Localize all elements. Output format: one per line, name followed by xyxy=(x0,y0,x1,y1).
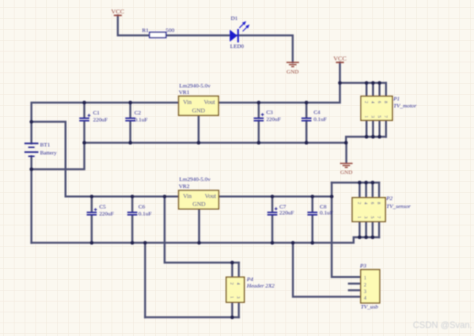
svg-text:GND: GND xyxy=(340,170,352,176)
svg-text:220uF: 220uF xyxy=(266,117,281,123)
svg-text:Vout: Vout xyxy=(204,100,216,106)
svg-text:Header 2X2: Header 2X2 xyxy=(246,284,275,290)
svg-text:R1: R1 xyxy=(142,28,149,34)
svg-text:P4: P4 xyxy=(246,277,253,283)
svg-text:TV_sensor: TV_sensor xyxy=(386,204,411,210)
svg-text:Vout: Vout xyxy=(205,194,217,200)
svg-text:Lm2940-5.0v: Lm2940-5.0v xyxy=(179,177,210,183)
svg-text:C6: C6 xyxy=(138,205,145,211)
svg-text:C8: C8 xyxy=(320,204,327,210)
svg-text:CSDN @Svan.: CSDN @Svan. xyxy=(413,320,472,330)
svg-text:P1: P1 xyxy=(392,97,399,103)
svg-text:Vin: Vin xyxy=(183,100,192,106)
svg-text:D1: D1 xyxy=(231,16,238,22)
svg-text:VCC: VCC xyxy=(111,9,124,16)
svg-text:VCC: VCC xyxy=(333,56,346,63)
svg-text:TV_motor: TV_motor xyxy=(393,104,417,110)
svg-text:Lm2940-5.0v: Lm2940-5.0v xyxy=(179,83,210,89)
svg-text:500: 500 xyxy=(166,28,175,34)
svg-text:GND: GND xyxy=(287,70,299,76)
svg-text:P3: P3 xyxy=(359,264,366,270)
svg-text:C3: C3 xyxy=(266,110,273,116)
svg-text:C1: C1 xyxy=(93,110,100,116)
svg-text:GND: GND xyxy=(192,108,206,114)
svg-text:TV_usb: TV_usb xyxy=(361,305,379,311)
svg-text:VR1: VR1 xyxy=(179,90,190,96)
svg-text:VR2: VR2 xyxy=(179,184,190,190)
svg-text:C7: C7 xyxy=(279,204,286,210)
svg-text:LED0: LED0 xyxy=(230,44,244,50)
svg-text:0.1uF: 0.1uF xyxy=(138,212,151,218)
svg-text:GND: GND xyxy=(193,202,207,208)
svg-text:C4: C4 xyxy=(314,110,321,116)
svg-text:220uF: 220uF xyxy=(93,117,108,123)
svg-text:P2: P2 xyxy=(385,196,392,202)
svg-text:C5: C5 xyxy=(99,205,106,211)
svg-text:0.1uF: 0.1uF xyxy=(134,117,147,123)
svg-text:Vin: Vin xyxy=(183,194,192,200)
svg-text:220uF: 220uF xyxy=(99,212,114,218)
svg-text:0.1uF: 0.1uF xyxy=(320,211,333,217)
svg-text:220uF: 220uF xyxy=(279,211,294,217)
svg-text:0.1uF: 0.1uF xyxy=(314,117,327,123)
svg-text:BT1: BT1 xyxy=(40,142,50,148)
svg-text:C2: C2 xyxy=(134,110,141,116)
svg-text:Battery: Battery xyxy=(40,151,57,157)
